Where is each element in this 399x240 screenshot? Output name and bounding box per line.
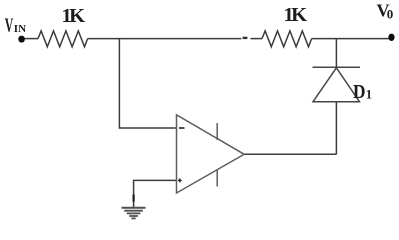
svg-text:1K: 1K	[284, 4, 308, 26]
svg-text:D: D	[353, 82, 366, 103]
svg-text:IN: IN	[14, 24, 27, 35]
svg-text:1K: 1K	[62, 5, 86, 27]
svg-text:V: V	[5, 16, 14, 37]
svg-text:0: 0	[387, 6, 394, 21]
svg-text:1: 1	[366, 88, 372, 102]
